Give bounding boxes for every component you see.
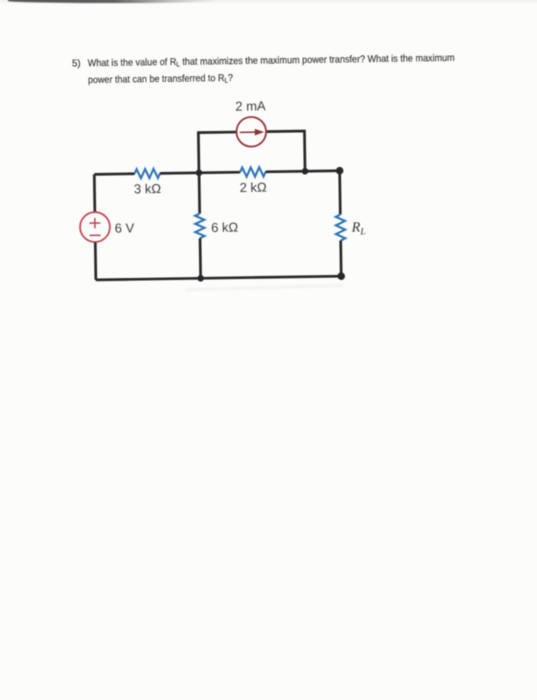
svg-text:RL: RL xyxy=(351,220,366,237)
wire: top left segment (node A to 3k) xyxy=(94,172,134,175)
wire: current source loop xyxy=(198,131,305,173)
wire: right branch upper xyxy=(338,171,341,215)
minus sign xyxy=(90,234,101,236)
resistor R 6k zigzag xyxy=(195,214,205,239)
wire: top middle segment (3k to 2k through node B) xyxy=(160,172,240,173)
svg-text:6 V: 6 V xyxy=(115,220,135,235)
resistor R 3k zigzag xyxy=(135,169,161,179)
current source I1 2mA circle xyxy=(236,117,266,147)
scan dark streak artifact xyxy=(8,0,218,3)
wire: left branch lower xyxy=(94,242,97,279)
wire: top right segment (2k to node C) xyxy=(266,171,340,172)
resistor R 2k zigzag xyxy=(240,167,266,177)
junction bottom right dot xyxy=(337,272,345,280)
svg-text:What is the value of RL that m: What is the value of RL that maximizes t… xyxy=(88,53,455,70)
wire: middle branch upper xyxy=(198,173,201,214)
wire: middle branch lower xyxy=(199,238,202,278)
voltage source V1 6V circle xyxy=(80,212,110,242)
wire: left branch upper xyxy=(93,174,96,211)
junction bottom middle dot xyxy=(197,275,204,282)
plus sign xyxy=(89,218,100,228)
svg-text:6 kΩ: 6 kΩ xyxy=(211,220,239,235)
junction cs right dot xyxy=(302,168,309,175)
scan ghost line below bottom wire xyxy=(185,285,344,289)
resistor RL zigzag xyxy=(336,214,346,240)
junction node B dot xyxy=(196,169,203,176)
svg-text:power that can be transferred: power that can be transferred to RL? xyxy=(88,73,234,87)
svg-text:3 kΩ: 3 kΩ xyxy=(134,181,162,196)
wire: bottom xyxy=(96,276,341,280)
wire: right branch lower xyxy=(339,241,342,277)
svg-text:2 mA: 2 mA xyxy=(235,98,266,113)
current source arrow xyxy=(240,131,255,133)
svg-text:2 kΩ: 2 kΩ xyxy=(240,180,268,195)
junction node C dot xyxy=(336,167,344,175)
svg-text:5): 5) xyxy=(72,58,81,69)
scan top shade xyxy=(0,0,537,4)
